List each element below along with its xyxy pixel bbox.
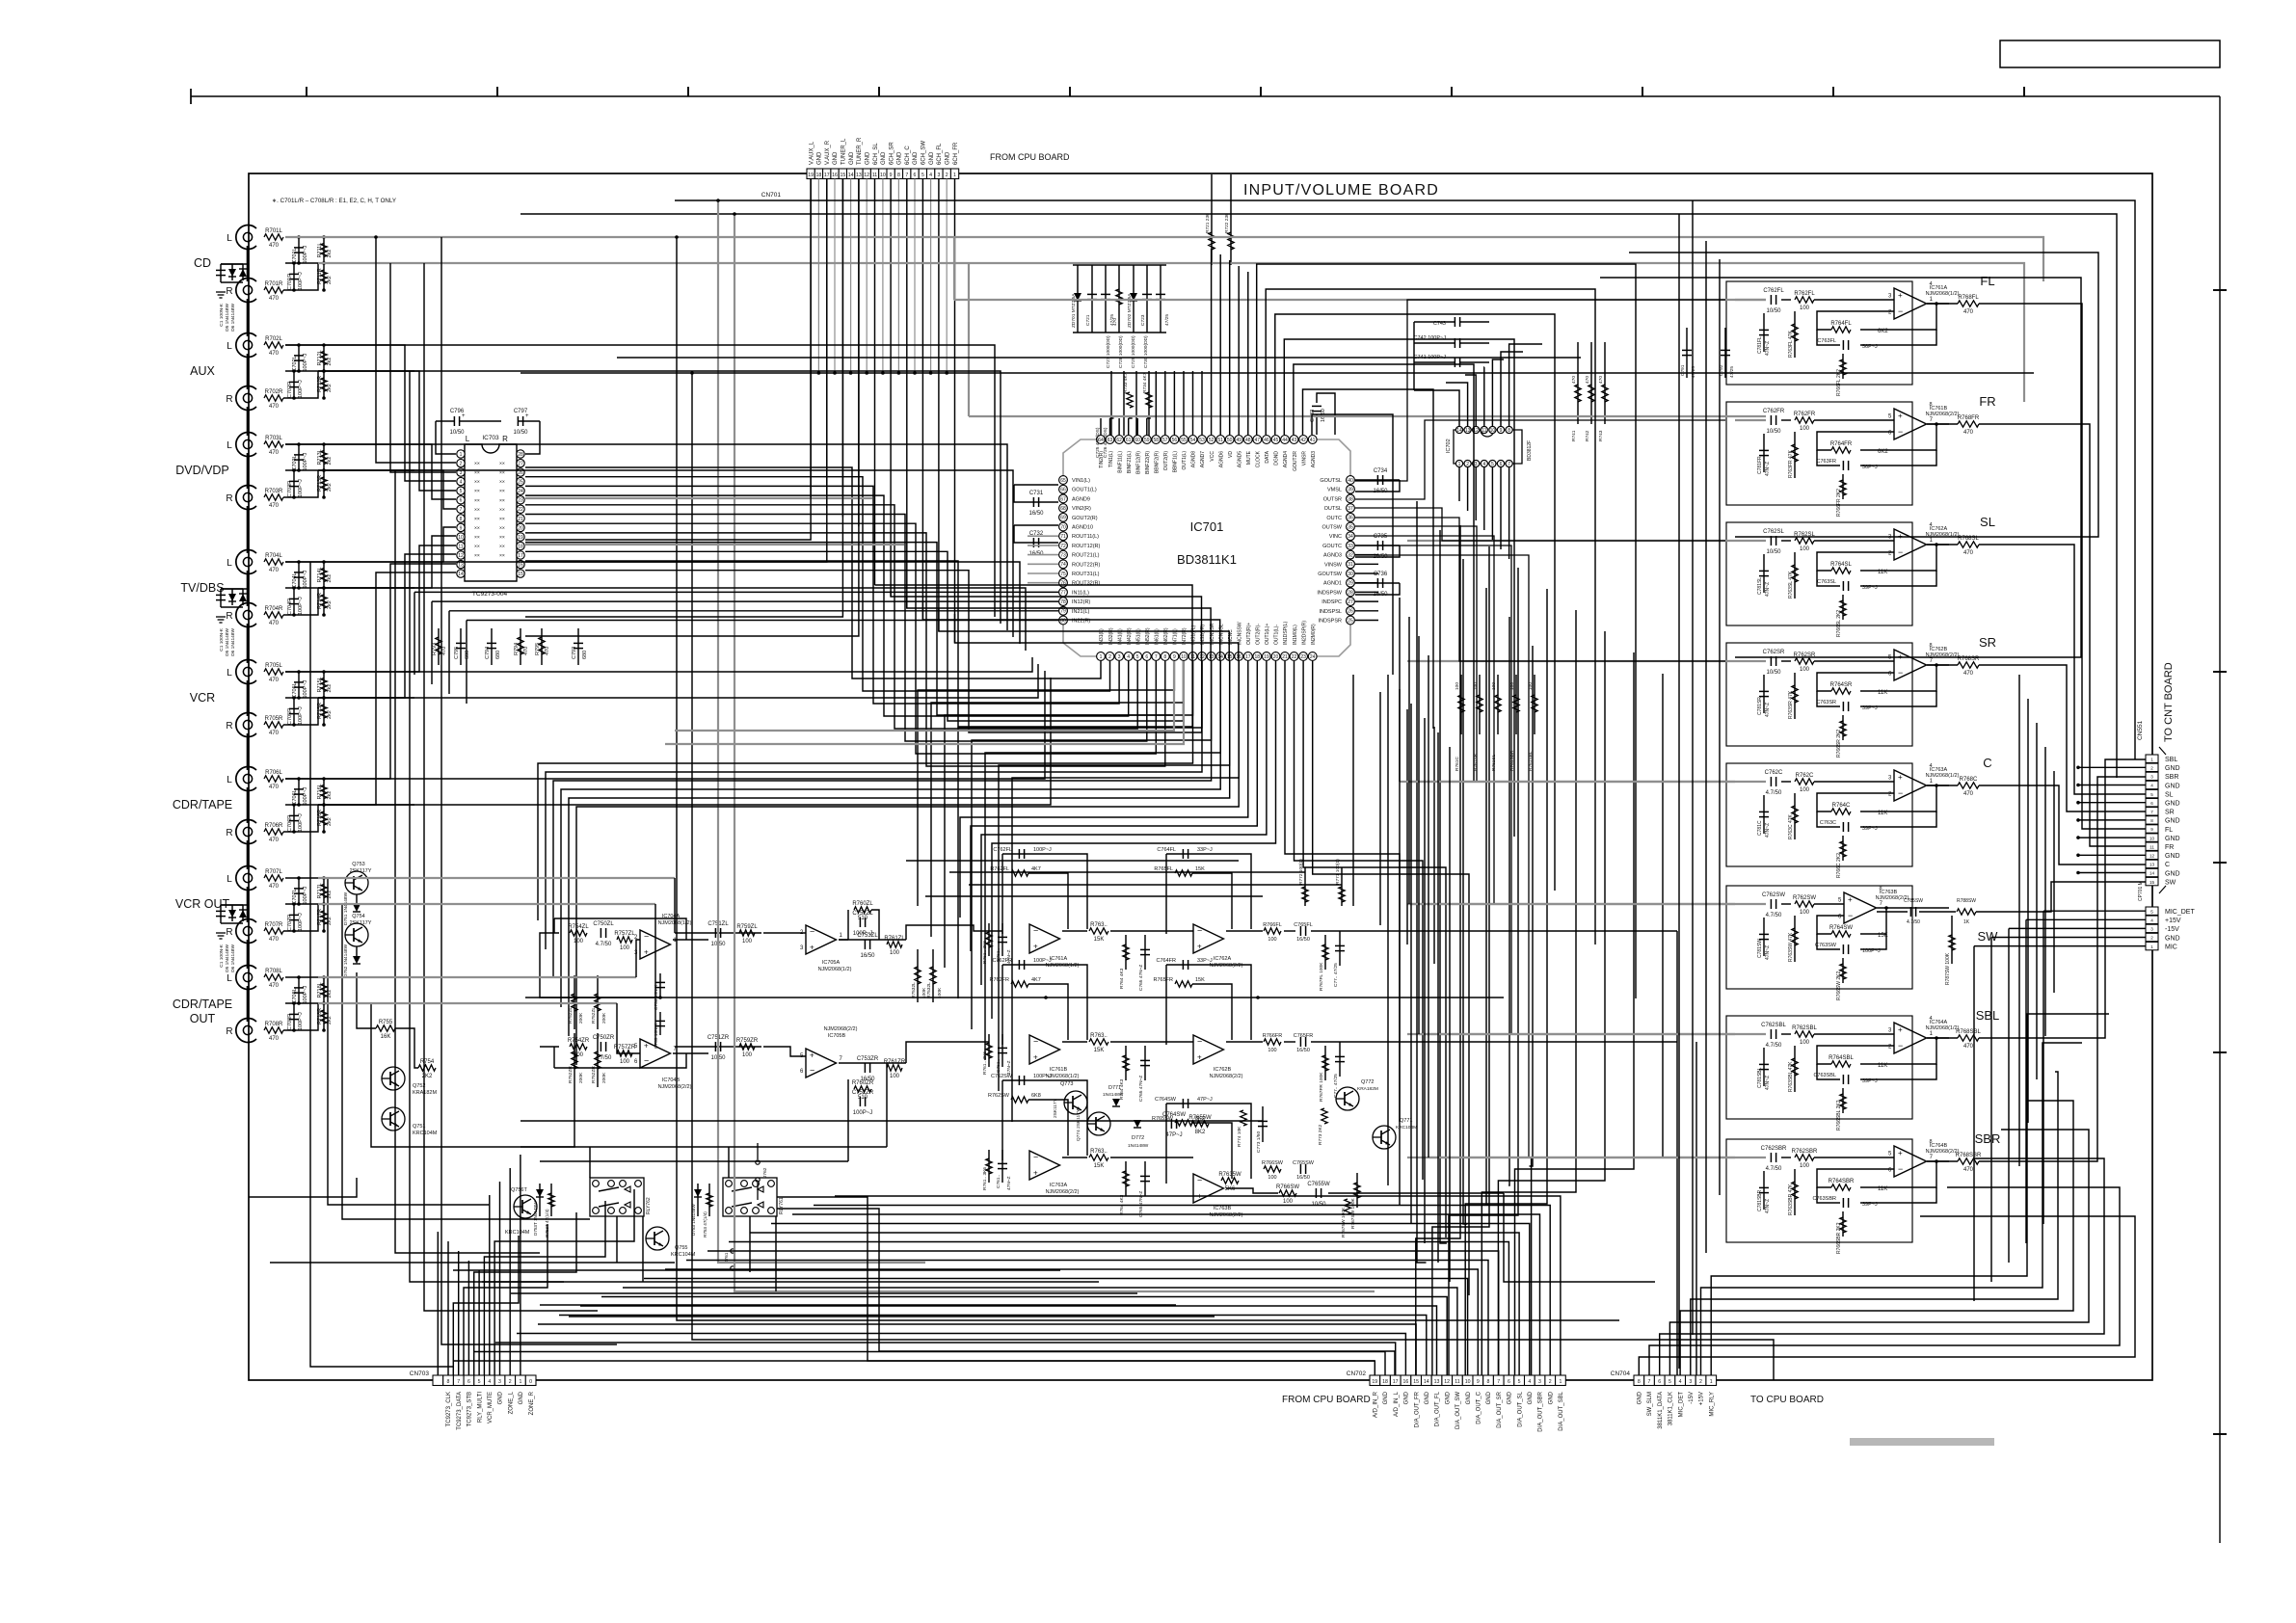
wire IC704B feedback bbox=[554, 1053, 686, 1068]
svg-text:AUX: AUX bbox=[190, 364, 215, 378]
wire bbox=[1976, 911, 2000, 913]
wire stub bbox=[293, 470, 295, 497]
svg-text:R713L: R713L bbox=[317, 449, 323, 465]
svg-text:SR: SR bbox=[1979, 635, 1996, 650]
IC702 pin 9 bbox=[1497, 426, 1504, 433]
junction bbox=[322, 830, 326, 834]
wire stub bbox=[541, 628, 543, 665]
svg-text:9: 9 bbox=[890, 173, 893, 178]
wire to filter stage bbox=[958, 661, 1202, 998]
svg-text:D6 1N4148W: D6 1N4148W bbox=[230, 945, 236, 972]
svg-text:INDSPSL: INDSPSL bbox=[1319, 609, 1342, 615]
op-amp stage box SL bbox=[1726, 522, 1912, 625]
svg-text:77: 77 bbox=[1060, 590, 1066, 596]
wire CN702 signal bbox=[644, 1279, 1468, 1376]
svg-text:IC701: IC701 bbox=[1190, 519, 1224, 534]
svg-text:OUTSL: OUTSL bbox=[1324, 506, 1342, 512]
svg-text:××: ×× bbox=[499, 507, 505, 513]
IC702 pin 12 bbox=[1473, 426, 1480, 433]
wire feedback cap bbox=[1860, 691, 1936, 706]
svg-text:12: 12 bbox=[1444, 1379, 1450, 1385]
junction bbox=[322, 586, 326, 590]
svg-text:R706L: R706L bbox=[265, 770, 282, 776]
connector CN701 pin 13 bbox=[855, 169, 863, 179]
capacitor C795 bbox=[456, 642, 466, 644]
svg-text:TUNER_L: TUNER_L bbox=[841, 138, 847, 165]
junction bbox=[733, 212, 736, 216]
capacitor C703R bbox=[289, 480, 299, 482]
wire bbox=[1125, 935, 1127, 970]
wire jack ground chain bbox=[247, 680, 250, 716]
IC701 pin 33 bbox=[1347, 542, 1355, 550]
wire bbox=[1001, 1150, 1003, 1183]
junction bbox=[322, 803, 326, 807]
wire to IC703 pin1 bbox=[436, 421, 456, 454]
wire CN702 signal bbox=[792, 1214, 1540, 1375]
junction bbox=[322, 723, 326, 727]
wire bus bbox=[1313, 661, 1469, 1295]
svg-text:6CH_SL: 6CH_SL bbox=[873, 143, 879, 165]
svg-text:OUT1(L)+: OUT1(L)+ bbox=[1265, 624, 1270, 645]
resistor R703L bbox=[264, 441, 283, 447]
svg-text:FR: FR bbox=[1979, 394, 1995, 409]
capacitor C765FR bbox=[1299, 1037, 1301, 1047]
svg-text:R7532L: R7532L bbox=[926, 982, 932, 998]
svg-text:BINF22(R): BINF22(R) bbox=[1145, 451, 1151, 474]
svg-text:R708R: R708R bbox=[265, 1022, 283, 1027]
wire bbox=[1014, 484, 1058, 486]
svg-text:C764SW: C764SW bbox=[1155, 1097, 1177, 1103]
resistor R702R bbox=[264, 395, 283, 401]
RCA jack CDR/TAPE OUT L bbox=[236, 966, 256, 990]
IC701 pin 34 bbox=[1347, 532, 1355, 541]
svg-text:8: 8 bbox=[2150, 818, 2153, 823]
svg-text:R768C: R768C bbox=[1960, 777, 1978, 783]
svg-text:C763SR: C763SR bbox=[1816, 700, 1836, 705]
wire bbox=[1735, 903, 1766, 905]
svg-text:470: 470 bbox=[1963, 550, 1974, 556]
op-amp IC704A bbox=[640, 930, 671, 959]
protection diode CD bbox=[228, 269, 236, 277]
wire bus to CN551 bbox=[675, 200, 2135, 759]
capacitor C731 bbox=[1032, 497, 1034, 507]
wire DSP bus bbox=[1275, 314, 1555, 891]
wire CN702 signal bbox=[474, 1352, 1385, 1376]
connector CN701 pin 8 bbox=[894, 169, 902, 179]
wire 6CH to IC701 bbox=[922, 602, 1219, 661]
svg-text:BINF21(L): BINF21(L) bbox=[1127, 451, 1133, 473]
wire DVD R bbox=[318, 470, 456, 509]
svg-text:SL: SL bbox=[1980, 515, 1995, 529]
svg-text:C706L: C706L bbox=[292, 789, 298, 805]
IC701 pin 61 bbox=[1124, 436, 1133, 444]
svg-text:73: 73 bbox=[1060, 553, 1066, 559]
wire DSP bus bbox=[1294, 364, 1474, 783]
svg-text:R703L: R703L bbox=[265, 436, 282, 441]
wire to filter stage bbox=[945, 661, 1193, 968]
wire IC702 top bbox=[1446, 383, 1468, 426]
wire filter rail bbox=[521, 1120, 1263, 1122]
svg-text:ZONE_R: ZONE_R bbox=[529, 1391, 535, 1415]
capacitor C761 47N~Z bbox=[998, 1162, 1007, 1164]
wire bbox=[1125, 1161, 1127, 1196]
svg-text:∗. C701L/R – C708L/R : E1, E2,: ∗. C701L/R – C708L/R : E1, E2, C, H, T O… bbox=[272, 198, 396, 204]
svg-text:TC9273_DATA: TC9273_DATA bbox=[457, 1392, 463, 1430]
svg-text:10: 10 bbox=[1490, 428, 1496, 434]
wire CN702 signal bbox=[517, 1334, 1405, 1376]
wire bbox=[1001, 923, 1003, 956]
svg-text:−: − bbox=[1197, 926, 1202, 936]
diode D771 1N4148W bbox=[1112, 1099, 1120, 1106]
capacitor C763SBL bbox=[1842, 1075, 1844, 1084]
wire VCR OUT R feed bbox=[318, 903, 655, 905]
wire top pin riser bbox=[1247, 272, 1249, 435]
wire 6CH FL to IC701 bbox=[675, 661, 1174, 731]
wire bbox=[1226, 1041, 1263, 1043]
wire MIC net drop bbox=[2042, 911, 2044, 1224]
IC703 pin 4 bbox=[457, 477, 465, 485]
resistor R766SBL bbox=[1840, 1094, 1846, 1109]
wire bus bbox=[310, 562, 453, 1367]
wire to inverting input bbox=[1817, 552, 1894, 571]
svg-text:R702R: R702R bbox=[265, 389, 283, 395]
wire bbox=[1817, 811, 1840, 827]
connector CN703 pin 2 bbox=[505, 1375, 516, 1386]
wire CN701 GND drop bbox=[914, 179, 916, 374]
wire bbox=[1781, 1033, 1791, 1035]
wire mid bus bbox=[285, 469, 414, 471]
connector MIC pin 4 bbox=[2146, 916, 2158, 923]
svg-text:470: 470 bbox=[269, 404, 280, 410]
svg-text:C730 1000(DD): C730 1000(DD) bbox=[1143, 335, 1149, 368]
svg-text:NJM2068(2/2): NJM2068(2/2) bbox=[1046, 1189, 1080, 1195]
wire bbox=[1504, 1193, 1655, 1282]
wire bbox=[1577, 342, 1579, 424]
capacitor C736 bbox=[1376, 578, 1378, 588]
wire bbox=[220, 264, 222, 282]
wire bbox=[1763, 795, 1765, 834]
junction bbox=[297, 235, 301, 239]
junction bbox=[297, 1001, 301, 1005]
svg-text:GND: GND bbox=[1404, 1391, 1410, 1404]
wire CN703 signal bbox=[509, 1168, 511, 1375]
wire stub bbox=[1135, 371, 1137, 436]
wire stub bbox=[293, 588, 295, 615]
op-amp IC763A bbox=[1894, 770, 1927, 801]
wire to IC761A bbox=[906, 925, 1002, 940]
IC701 pin 16 bbox=[1235, 652, 1243, 661]
svg-text:D/A_OUT_SBR: D/A_OUT_SBR bbox=[1538, 1391, 1544, 1431]
svg-text:10/50: 10/50 bbox=[449, 430, 465, 436]
svg-text:R762C: R762C bbox=[1796, 773, 1814, 779]
wire FR feed riser bbox=[968, 263, 970, 416]
wire bbox=[1781, 540, 1791, 542]
svg-text:2k2: 2k2 bbox=[327, 276, 333, 284]
wire bbox=[356, 894, 358, 904]
wire bbox=[1590, 342, 1592, 424]
wire ROUT stub bbox=[1028, 535, 1058, 537]
svg-text:75: 75 bbox=[1060, 572, 1066, 577]
wire CN702 signal bbox=[559, 1316, 1427, 1376]
svg-text:470: 470 bbox=[1571, 376, 1577, 384]
wire direct input drop bbox=[466, 621, 467, 705]
capacitor C735 bbox=[1376, 541, 1378, 550]
resistor R762SBL bbox=[1795, 1031, 1814, 1037]
capacitor C763SR bbox=[1842, 702, 1844, 711]
IC701 pin 66 bbox=[1059, 485, 1068, 493]
capacitor C764SW bbox=[1182, 1099, 1184, 1108]
svg-text:C77.. 47/25: C77.. 47/25 bbox=[1333, 1074, 1339, 1098]
svg-text:2SK117Y: 2SK117Y bbox=[350, 920, 372, 926]
capacitor C781SBR bbox=[1759, 1186, 1769, 1188]
wire bbox=[540, 1046, 559, 1048]
svg-text:16/50: 16/50 bbox=[860, 953, 875, 959]
wire ROUT stub bbox=[1028, 582, 1058, 584]
connector CN704 pin 6 bbox=[1654, 1375, 1665, 1386]
wire stub bbox=[293, 1003, 295, 1030]
wire stub bbox=[1355, 582, 1378, 584]
wire bbox=[886, 1063, 888, 1147]
wire to inverting input bbox=[1817, 793, 1894, 811]
wire jack ground chain bbox=[247, 407, 250, 436]
svg-text:R715L: R715L bbox=[317, 677, 323, 692]
capacitor C704L bbox=[294, 572, 304, 573]
wire bus bbox=[1295, 661, 1424, 1180]
wire feedback bbox=[1860, 545, 1936, 571]
svg-text:C701L: C701L bbox=[292, 248, 298, 263]
svg-text:18: 18 bbox=[816, 173, 822, 178]
IC703 pin 7 bbox=[457, 505, 465, 513]
svg-text:61: 61 bbox=[1126, 438, 1132, 443]
svg-text:16/50: 16/50 bbox=[1296, 937, 1310, 943]
wire GND bbox=[2078, 854, 2146, 856]
wire bbox=[221, 922, 243, 924]
svg-text:−: − bbox=[1898, 788, 1903, 798]
resistor R733 bbox=[1127, 392, 1133, 408]
wire bbox=[1842, 595, 1844, 620]
wire +15V rail bbox=[1692, 200, 1694, 1335]
junction bbox=[292, 288, 296, 292]
svg-text:VMSL: VMSL bbox=[1327, 488, 1342, 493]
wire bbox=[553, 1047, 555, 1068]
junction bbox=[322, 975, 326, 979]
resistor R762SW bbox=[1795, 901, 1814, 907]
wire bbox=[763, 932, 806, 934]
IC701 pin 57 bbox=[1161, 436, 1169, 444]
wire to zone filters bbox=[576, 661, 1239, 1065]
IC701 pin 3 bbox=[1115, 652, 1124, 661]
svg-text:R766SW 2K2: R766SW 2K2 bbox=[1836, 971, 1842, 1000]
svg-text:SR: SR bbox=[2165, 810, 2175, 816]
resistor R716L bbox=[321, 785, 327, 799]
svg-text:TO CPU BOARD: TO CPU BOARD bbox=[1750, 1395, 1824, 1405]
zener ZD701 bbox=[1074, 293, 1081, 301]
resistor R705L bbox=[264, 669, 283, 675]
svg-text:D6 1N4148W: D6 1N4148W bbox=[230, 628, 236, 656]
wire feedback cap bbox=[1860, 330, 1936, 345]
svg-text:R717L: R717L bbox=[317, 883, 323, 898]
wire bbox=[1355, 480, 1400, 492]
svg-text:12: 12 bbox=[2149, 854, 2155, 859]
IC702 pin 7 bbox=[1506, 460, 1512, 466]
svg-text:C702L: C702L bbox=[292, 356, 298, 371]
resistor R774 10K bbox=[1241, 1110, 1246, 1126]
svg-text:100P~J: 100P~J bbox=[303, 985, 308, 1003]
svg-text:23: 23 bbox=[518, 498, 523, 504]
resistor R768C bbox=[1958, 783, 1979, 788]
transistor Q771 KRC104M bbox=[1373, 1126, 1396, 1149]
junction bbox=[292, 613, 296, 617]
junction bbox=[322, 468, 326, 472]
svg-text:C762SR: C762SR bbox=[1763, 650, 1785, 655]
junction bbox=[849, 371, 853, 375]
wire bbox=[1355, 479, 1400, 481]
resistor R793 bbox=[436, 637, 441, 654]
wire stub bbox=[323, 237, 325, 263]
wire direct input drop bbox=[448, 611, 450, 694]
wire FL feed riser bbox=[953, 237, 955, 300]
svg-text:C752ZR: C752ZR bbox=[852, 1090, 874, 1096]
wire bbox=[839, 939, 848, 941]
svg-text:70: 70 bbox=[1060, 524, 1066, 530]
title box (empty) bbox=[2000, 40, 2220, 67]
wire bbox=[1226, 930, 1263, 932]
svg-text:44: 44 bbox=[1282, 438, 1288, 443]
svg-text:IN2M0(R): IN2M0(R) bbox=[1311, 624, 1317, 645]
svg-text:200K: 200K bbox=[601, 1012, 607, 1024]
wire CN701 GND drop bbox=[946, 179, 948, 374]
IC701 pin 58 bbox=[1152, 436, 1161, 444]
svg-text:43: 43 bbox=[1292, 438, 1297, 443]
svg-text:NJM2068(1/2): NJM2068(1/2) bbox=[1926, 773, 1960, 779]
svg-text:GND: GND bbox=[2165, 836, 2180, 842]
junction bbox=[292, 1001, 296, 1005]
wire to CN551 bbox=[2000, 785, 2146, 865]
wire CN702 signal bbox=[601, 1297, 1447, 1376]
svg-text:R763SBR 47K: R763SBR 47K bbox=[1788, 1184, 1794, 1215]
svg-text:××: ×× bbox=[474, 480, 480, 486]
svg-text:C765FR: C765FR bbox=[1294, 1033, 1314, 1039]
svg-text:4: 4 bbox=[460, 480, 463, 486]
wire tuner/aux input to selector bbox=[525, 178, 811, 540]
wire V.AUX_R to selector bbox=[826, 179, 828, 508]
svg-text:GND: GND bbox=[498, 1391, 504, 1404]
IC703 pin 12 bbox=[457, 551, 465, 559]
resistor R714R bbox=[321, 595, 327, 608]
connector CN702 pin 9 bbox=[1473, 1375, 1483, 1386]
capacitor C755 bbox=[655, 1020, 665, 1022]
wire MIC net bbox=[2043, 910, 2146, 912]
svg-text:6K2: 6K2 bbox=[1878, 329, 1888, 334]
svg-text:2k2: 2k2 bbox=[327, 250, 333, 258]
connector CN551 pin 1 bbox=[2146, 755, 2158, 762]
svg-text:6: 6 bbox=[2150, 801, 2153, 806]
svg-text:4: 4 bbox=[488, 1379, 491, 1385]
svg-text:D6 1N4148W: D6 1N4148W bbox=[230, 304, 236, 332]
wire bbox=[1814, 299, 1894, 301]
wire bbox=[436, 420, 454, 422]
wire bbox=[553, 918, 555, 933]
wire to inverting input bbox=[1817, 432, 1894, 450]
capacitor C781SR bbox=[1759, 690, 1769, 692]
svg-text:4K7: 4K7 bbox=[1031, 866, 1041, 872]
svg-text:14: 14 bbox=[848, 173, 854, 178]
wire bbox=[1001, 1034, 1003, 1067]
svg-text:××: ×× bbox=[474, 535, 480, 541]
junction bbox=[297, 343, 301, 347]
wire to post filters bbox=[981, 661, 1267, 985]
wire bus bbox=[2053, 771, 2055, 993]
wire stub bbox=[323, 805, 325, 832]
svg-text:R766SW: R766SW bbox=[1262, 1160, 1284, 1166]
svg-text:28: 28 bbox=[518, 452, 523, 458]
svg-text:FL: FL bbox=[2165, 827, 2173, 834]
op-amp IC761A bbox=[1894, 288, 1927, 319]
svg-text:RLY761: RLY761 bbox=[779, 1197, 785, 1214]
svg-text:MIC_RLY: MIC_RLY bbox=[1709, 1392, 1715, 1417]
junction bbox=[297, 803, 301, 807]
RCA jack TV/DBS R bbox=[236, 603, 256, 627]
svg-text:××: ×× bbox=[474, 489, 480, 494]
capacitor C762FL bbox=[1018, 849, 1020, 859]
svg-text:MIC: MIC bbox=[2165, 944, 2177, 950]
svg-text:GND: GND bbox=[1466, 1391, 1472, 1404]
resistor R763SBR bbox=[1792, 1182, 1798, 1199]
wire bbox=[1842, 836, 1844, 861]
svg-text:+: + bbox=[1848, 895, 1853, 904]
svg-text:+15V: +15V bbox=[2165, 918, 2181, 924]
resistor R761 3K6 bbox=[986, 932, 992, 947]
wire R channel up to mid bbox=[283, 805, 318, 832]
wire bbox=[1144, 1046, 1146, 1080]
svg-text:100: 100 bbox=[742, 1052, 753, 1058]
capacitor C762FL bbox=[1770, 295, 1772, 305]
wire bbox=[1328, 1192, 1504, 1194]
svg-text:R757ZL: R757ZL bbox=[614, 931, 635, 937]
svg-text:××: ×× bbox=[499, 480, 505, 486]
svg-text:100P~J: 100P~J bbox=[303, 786, 308, 805]
svg-text:R764SBR: R764SBR bbox=[1829, 1179, 1855, 1184]
connector CN551 pin 10 bbox=[2146, 834, 2158, 841]
svg-text:Q773: Q773 bbox=[1060, 1081, 1073, 1087]
resistor R762SBR bbox=[1795, 1155, 1814, 1160]
wire bbox=[1763, 434, 1765, 472]
op-amp stage box C bbox=[1726, 763, 1912, 866]
svg-text:100P~J: 100P~J bbox=[303, 679, 308, 698]
wire stub bbox=[298, 444, 300, 470]
svg-text:39P~J: 39P~J bbox=[1862, 826, 1878, 832]
wire to protection bbox=[221, 904, 248, 906]
RCA jack VCR OUT R bbox=[236, 918, 256, 943]
svg-text:-15V: -15V bbox=[1689, 1392, 1695, 1404]
wire bbox=[1724, 328, 1726, 378]
svg-text:DATA: DATA bbox=[1265, 450, 1270, 463]
wire control signal bbox=[464, 1224, 547, 1375]
wire to CN702 bbox=[1465, 589, 1547, 1375]
wire CN702 signal bbox=[665, 1269, 1478, 1375]
wire bus bbox=[1410, 704, 1412, 1224]
capacitor C707L bbox=[294, 888, 304, 890]
wire stub bbox=[323, 779, 325, 805]
junction bbox=[322, 902, 326, 906]
junction bbox=[322, 876, 326, 880]
svg-text:AGND3: AGND3 bbox=[1311, 451, 1317, 467]
wire IC704A feedback bbox=[554, 918, 686, 940]
resistor R767FR bbox=[1322, 1055, 1328, 1071]
wire IC702 top bbox=[1414, 390, 1459, 426]
svg-text:8: 8 bbox=[1163, 654, 1166, 660]
svg-text:××: ×× bbox=[499, 535, 505, 541]
